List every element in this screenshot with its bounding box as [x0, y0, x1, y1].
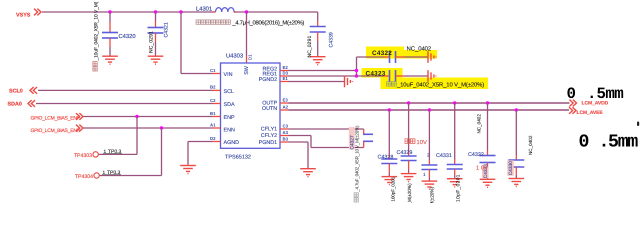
svg-text:SDA: SDA: [224, 102, 235, 108]
pin stub VIN: [213, 73, 221, 75]
wire C4323 to ground: [404, 75, 428, 77]
svg-text:C4323: C4323: [366, 71, 386, 78]
wire CFLY1: [289, 128, 364, 130]
ground PGND2: [345, 76, 353, 88]
wire TP4303: [98, 153, 137, 155]
pin stub REG1: [280, 75, 289, 77]
wire CFLY2 down: [310, 136, 312, 148]
wire to C4328: [388, 110, 390, 154]
svg-text:10V: 10V: [417, 139, 427, 146]
wire to C4323: [357, 75, 385, 77]
wire SCL0: [38, 89, 213, 91]
svg-text:E1: E1: [283, 76, 289, 81]
capacitor: [421, 165, 437, 170]
wire AGND down: [187, 142, 189, 165]
svg-text:5mm: 5mm: [608, 132, 638, 152]
label C4327 value (vertical): [354, 125, 359, 202]
junction: [160, 126, 163, 129]
svg-text:VIN: VIN: [224, 72, 233, 78]
pin stub REG2: [280, 70, 289, 72]
capacitor: [310, 27, 326, 33]
ground C4329: [401, 174, 417, 182]
svg-text:TP4303: TP4303: [74, 153, 92, 159]
svg-text:5mm: 5mm: [597, 85, 624, 103]
svg-text:PGND1: PGND1: [259, 140, 278, 146]
pin stub SCL: [213, 89, 221, 91]
wire to C4330: [515, 110, 517, 155]
wire REG tie vertical: [356, 57, 358, 76]
junction: [407, 101, 410, 104]
svg-text:C4330: C4330: [508, 161, 514, 175]
port LCM_AVDD: [570, 100, 577, 107]
capacitor: [447, 165, 463, 170]
wire ENN to TP4304: [161, 128, 163, 176]
wire ENN: [84, 127, 213, 129]
svg-text:D2: D2: [210, 136, 216, 141]
capacitor: [508, 160, 524, 167]
junction: [486, 101, 489, 104]
svg-text:10 V_M(±20%): 10 V_M(±20%): [407, 183, 412, 203]
label cap value strip: [387, 82, 397, 86]
svg-text:2: 2: [427, 153, 430, 158]
junction: [453, 101, 456, 104]
svg-text:1: 1: [476, 166, 479, 172]
wire to C4331: [454, 103, 456, 160]
svg-text:0V: 0V: [481, 165, 488, 172]
junction: [179, 10, 182, 13]
svg-text:L4301: L4301: [196, 5, 212, 12]
inductor L4301: [213, 11, 216, 13]
svg-text:TP0.3: TP0.3: [107, 170, 121, 176]
wire ENP to TP4303: [136, 117, 138, 155]
wire VSYS to VIN: [180, 12, 182, 74]
capacitor: [148, 28, 164, 34]
capacitor: [390, 70, 396, 82]
capacitor: [401, 156, 417, 161]
svg-text:NC_0291: NC_0291: [149, 31, 155, 53]
wire VSYS rail: [42, 11, 215, 13]
pin stub SDA: [213, 103, 221, 105]
svg-text:_4.7uF_0402_X5R_10 V_M(±20%): _4.7uF_0402_X5R_10 V_M(±20%): [355, 125, 360, 193]
svg-text:C4329: C4329: [397, 150, 413, 156]
wire REG2: [289, 70, 357, 72]
ground C4332: [480, 179, 496, 187]
svg-text:0: 0: [567, 85, 576, 103]
ground C4339: [310, 57, 326, 65]
pin stub CFLY2: [280, 135, 289, 137]
svg-text:1: 1: [104, 149, 107, 155]
svg-text:C4321: C4321: [164, 22, 170, 37]
svg-text:C1: C1: [210, 68, 216, 73]
junction: [355, 69, 358, 72]
svg-text:CFLY1: CFLY1: [261, 127, 277, 133]
svg-text:A3: A3: [283, 130, 289, 135]
capacitor C4339: [317, 12, 319, 21]
svg-text:OUTN: OUTN: [262, 106, 277, 112]
svg-text:B2: B2: [210, 85, 216, 90]
svg-text:C3: C3: [283, 123, 289, 128]
ground C4320: [102, 56, 118, 64]
svg-text:NC_0291: NC_0291: [307, 36, 313, 58]
svg-text:C4320: C4320: [119, 33, 136, 40]
svg-text:NC_0402: NC_0402: [407, 45, 432, 52]
label C4320 value (vertical): [93, 1, 99, 71]
wire to C4333: [428, 110, 430, 160]
wire CFLY2 right: [311, 147, 364, 149]
capacitor: [363, 134, 373, 141]
svg-text:C4322: C4322: [372, 50, 392, 57]
wire LCM_AVEE rail: [289, 109, 570, 111]
port VSYS chevron: [34, 9, 41, 16]
pin stub OUTP: [280, 102, 289, 104]
annotation red 10V C4329: [405, 139, 415, 144]
op-amp/IC U4303 box: [221, 63, 281, 148]
highlight streak: [404, 50, 437, 59]
capacitor: [381, 159, 397, 164]
junction: [154, 10, 157, 13]
wire TP4304: [99, 175, 161, 177]
wire PGND1: [289, 141, 309, 143]
label C4330 (vertical, highlighted): [507, 160, 514, 176]
ground C4328: [382, 177, 398, 185]
wire PGND1 down: [307, 142, 309, 168]
wire REG1: [289, 75, 357, 77]
svg-text:1: 1: [423, 172, 426, 177]
svg-text:NC_0402: NC_0402: [476, 114, 481, 134]
wire to C4332: [487, 103, 489, 151]
svg-text:.: .: [587, 85, 596, 103]
svg-text:U4303: U4303: [226, 53, 243, 60]
svg-text:SCL: SCL: [224, 89, 235, 95]
wire rail right of L4301: [234, 11, 318, 13]
svg-text:D1: D1: [248, 54, 253, 60]
svg-text:A1: A1: [210, 122, 216, 127]
svg-text:B3: B3: [283, 136, 289, 141]
wire SDA0: [36, 103, 213, 105]
ground C4323: [428, 70, 436, 82]
svg-text:VSYS: VSYS: [16, 12, 31, 18]
svg-text:CFLY2: CFLY2: [261, 133, 277, 139]
ground C4322: [428, 51, 436, 63]
junction: [428, 108, 431, 111]
label C4327 (vertical, highlighted): [349, 127, 355, 150]
wire to SW pin: [246, 12, 248, 56]
pin stub ENP: [213, 116, 221, 118]
ground C4333: [422, 181, 438, 189]
svg-text:TPS65132: TPS65132: [225, 154, 251, 160]
svg-text:1: 1: [103, 170, 106, 176]
highlight spec strip: [381, 78, 489, 90]
svg-text:SCL0: SCL0: [9, 89, 23, 95]
svg-text:C4328: C4328: [378, 154, 394, 160]
svg-text:E2: E2: [283, 65, 289, 70]
svg-text:LCM_AVEE: LCM_AVEE: [577, 110, 604, 116]
wire CFLY2: [289, 135, 312, 137]
svg-text:_4.7μH_0806(2016)_M(±20%): _4.7μH_0806(2016)_M(±20%): [231, 20, 304, 27]
svg-text:D3: D3: [283, 70, 289, 75]
pin stub SW: [246, 56, 248, 63]
pin stub PGND2: [280, 81, 289, 83]
pin stub AGND: [213, 141, 221, 143]
port LCM_AVEE: [569, 107, 576, 114]
svg-text:AGND: AGND: [224, 140, 240, 146]
svg-text:0: 0: [579, 132, 590, 152]
svg-text:_10uF_0402_X5R_10 V_M(: _10uF_0402_X5R_10 V_M(: [93, 1, 99, 61]
stray mark right edge: [637, 122, 639, 127]
capacitor C4320: [109, 12, 111, 22]
svg-text:C4332: C4332: [468, 152, 484, 158]
svg-text:NC_0402: NC_0402: [528, 135, 533, 155]
svg-text:100pF_0201: 100pF_0201: [390, 176, 395, 201]
svg-text:_10uF_0402_X5R_10 V_M(±20%): _10uF_0402_X5R_10 V_M(±20%): [396, 82, 484, 89]
highlight C4322: [366, 47, 404, 59]
pin stub CFLY1: [280, 128, 289, 130]
label C4333 ref (vertical, highlighted): [482, 166, 489, 178]
svg-text:ENP: ENP: [224, 115, 235, 121]
junction: [245, 10, 248, 13]
capacitor: [390, 51, 396, 63]
wire LCM_AVDD rail: [289, 102, 570, 104]
pin stub ENN: [213, 127, 221, 129]
pin stub PGND1: [280, 141, 289, 143]
capacitor: [102, 33, 118, 39]
svg-text:C4331: C4331: [436, 153, 452, 159]
junction: [515, 108, 518, 111]
svg-text:C4339: C4339: [329, 32, 335, 47]
wire AGND: [188, 141, 213, 143]
svg-text:GPIO_LCM_BIAS_ENP: GPIO_LCM_BIAS_ENP: [31, 115, 81, 121]
ground PGND1: [300, 169, 316, 177]
svg-text:C2: C2: [210, 98, 216, 103]
wire PGND2: [289, 81, 345, 83]
svg-text:B1: B1: [210, 111, 216, 116]
junction: [108, 10, 111, 13]
svg-text:1 V_M(±20%): 1 V_M(±20%): [429, 186, 434, 203]
svg-text:ENN: ENN: [224, 127, 235, 133]
svg-text:10pF_0201: 10pF_0201: [456, 174, 462, 202]
capacitor C4327: [363, 129, 365, 134]
svg-text:SDA0: SDA0: [8, 102, 22, 108]
ground C4331: [447, 179, 463, 187]
svg-text:TP0.3: TP0.3: [108, 149, 122, 155]
capacitor: [480, 156, 496, 163]
junction: [388, 108, 391, 111]
wire to C4322: [357, 56, 385, 58]
svg-text:PGND2: PGND2: [259, 77, 278, 83]
wire C4322 to ground: [404, 56, 428, 58]
svg-text:SW: SW: [244, 65, 250, 75]
pin stub OUTN: [280, 109, 289, 111]
wire ENP: [84, 116, 213, 118]
ground C4330: [509, 179, 525, 187]
junction: [355, 74, 358, 77]
highlight C4323: [362, 68, 403, 78]
junction: [135, 115, 138, 118]
svg-text:GPIO_LCM_BIAS_ENN: GPIO_LCM_BIAS_ENN: [31, 128, 81, 134]
ground C4321: [148, 56, 164, 64]
svg-text:A2: A2: [283, 104, 289, 109]
svg-text:TP4304: TP4304: [75, 174, 93, 180]
label L4301 value: [196, 20, 200, 24]
capacitor C4321: [155, 12, 157, 21]
ground AGND: [180, 166, 196, 174]
svg-text:E3: E3: [283, 97, 289, 102]
wire to C4329: [408, 103, 410, 151]
